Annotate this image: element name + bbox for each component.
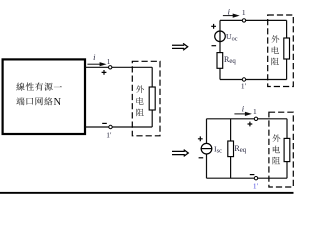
current arrow i (thevenin) [223,15,236,17]
current source bar [201,148,213,150]
load label (norton) char 1 [272,134,280,142]
svg-text:1: 1 [253,107,257,116]
box label char 4 line2 [44,97,52,105]
load dashed box (left) [132,61,160,136]
wire bottom (thevenin) [220,79,287,81]
svg-text:1: 1 [242,8,246,17]
node 1 (left) [109,66,112,69]
svg-text:1′: 1′ [241,81,247,90]
plus sign (left) [102,70,107,75]
plus of Isc [198,136,203,141]
box label char 3 line1 [35,83,43,91]
box label char 2 line1 [26,83,34,91]
load dashed box (norton) [269,112,293,187]
box label char 1 line1 [16,83,24,91]
plus of Uoc [211,24,216,29]
load resistor (thevenin) [284,38,290,59]
implies arrow top [172,43,188,50]
resistor Req (norton) [228,141,234,157]
minus sign (norton node) [250,174,255,176]
load resistor (left) [149,87,155,110]
left branch wire (norton) [206,119,208,178]
load label (thevenin) char 3 [272,58,280,66]
load label (left) char 2 [136,97,143,105]
load dashed box (thevenin) [268,15,294,87]
node 1p (left) [109,125,112,128]
box label char 3 line2 [36,97,43,105]
node 1 (norton) [254,117,257,120]
implies arrow bottom [172,150,188,157]
wire top (norton) [207,118,288,120]
node 1 (thevenin) [242,19,245,22]
svg-text:1: 1 [107,57,111,66]
wire bottom (norton) [207,177,288,179]
wire top (thevenin) [220,19,287,21]
minus of Uoc [212,45,217,47]
load label (norton) char 3 [273,157,281,165]
wire bottom left: box to load [85,126,152,128]
load label (norton) char 2 [273,146,280,154]
bottom border line [0,192,294,194]
load label (left) char 3 [136,109,144,117]
load wire (norton) [286,119,288,178]
minus of Isc [199,157,204,159]
Req branch wire (norton) [230,119,232,178]
load resistor (norton) [284,138,290,161]
box label char 4 line1 [44,83,52,91]
box label char 2 line2 [27,98,34,105]
box label char 5 line1 [54,86,62,87]
resistor Req (thevenin) [217,53,223,69]
svg-text:N: N [54,97,62,108]
wire top left: box to load [85,66,152,68]
load label (thevenin) char 2 [272,46,279,54]
current arrow i (norton) [234,113,248,115]
load wire (thevenin) [286,20,288,79]
node 1p (norton) [254,177,257,180]
network box N [3,59,85,134]
node 1p (thevenin) [242,78,245,81]
box label char 1 line2 [16,97,24,105]
left branch wire (thevenin) [219,20,221,79]
plus sign (norton node) [248,122,253,127]
load label (thevenin) char 1 [271,35,279,43]
current arrow i (left) [87,63,102,65]
voltage source Uoc circle [215,31,226,42]
svg-text:1′: 1′ [253,181,259,190]
load label (left) char 1 [136,85,144,93]
minus sign (left) [102,122,107,124]
current source Isc circle [201,143,212,154]
load wire down (left) [151,67,153,127]
svg-text:1′: 1′ [106,130,112,139]
